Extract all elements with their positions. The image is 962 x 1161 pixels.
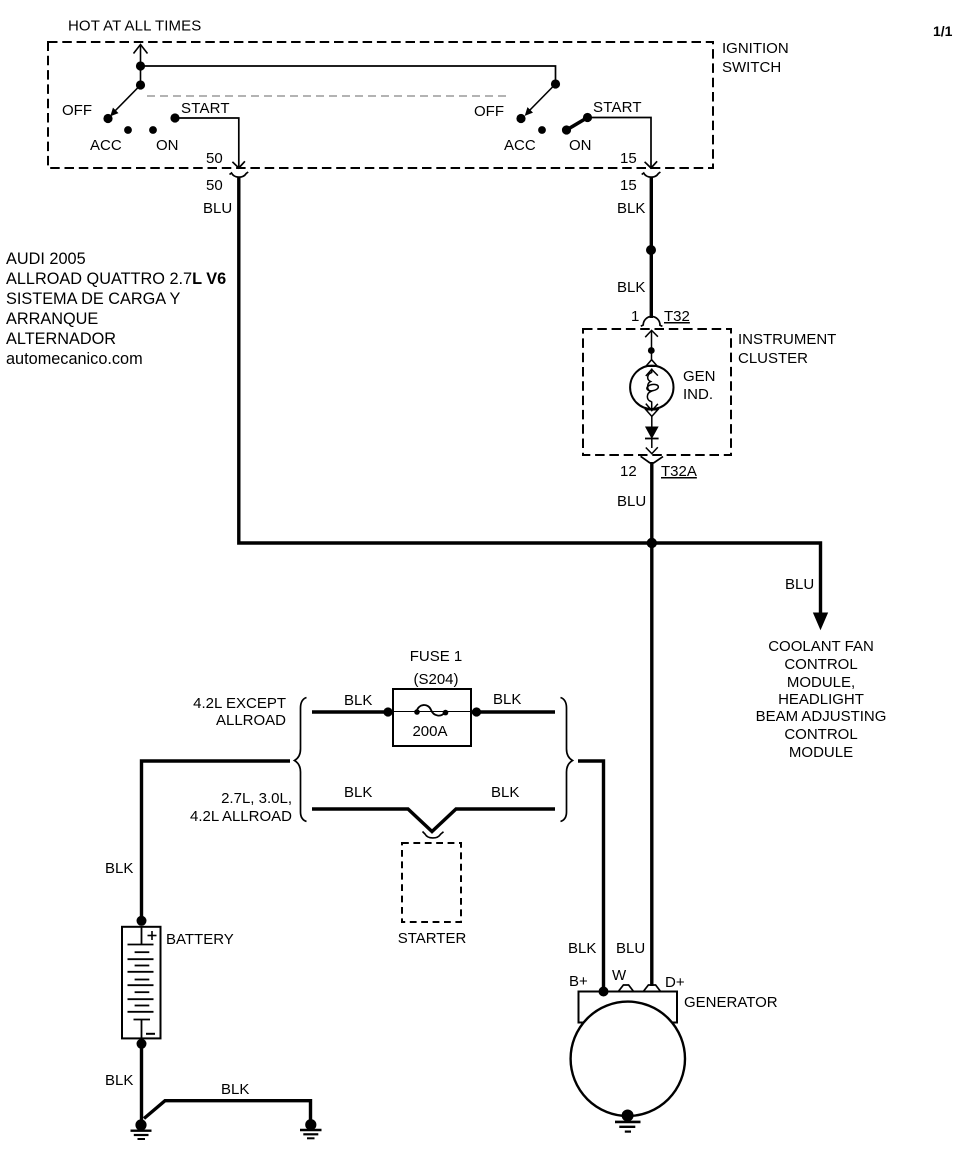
svg-text:STARTER: STARTER xyxy=(398,930,467,947)
svg-text:T32A: T32A xyxy=(661,463,697,480)
battery plus sign xyxy=(148,931,157,940)
fuse element F1 xyxy=(414,705,448,716)
left contact OFF xyxy=(103,114,112,123)
label COOLANT FAN CONTROL MODULE xyxy=(756,638,887,761)
svg-text:BLK: BLK xyxy=(221,1081,249,1098)
svg-text:START: START xyxy=(181,100,230,117)
node: BLU junction xyxy=(647,538,657,548)
connector cup 15 xyxy=(642,172,661,177)
svg-text:ALLROAD: ALLROAD xyxy=(216,712,286,729)
ground G202 (body) xyxy=(300,1119,322,1138)
svg-text:D+: D+ xyxy=(665,974,685,991)
svg-text:HEADLIGHT: HEADLIGHT xyxy=(778,691,864,708)
svg-text:B+: B+ xyxy=(569,973,588,990)
starter box xyxy=(402,843,461,922)
svg-text:ACC: ACC xyxy=(90,137,122,154)
svg-text:2.7L, 3.0L,: 2.7L, 3.0L, xyxy=(221,790,292,807)
svg-text:automecanico.com: automecanico.com xyxy=(6,350,143,368)
battery minus sign xyxy=(146,1033,155,1035)
svg-text:ALLROAD QUATTRO 2.7L V6: ALLROAD QUATTRO 2.7L V6 xyxy=(6,270,226,288)
svg-text:BLK: BLK xyxy=(493,691,521,708)
wire: BLU from cluster down xyxy=(650,462,653,986)
svg-text:CONTROL: CONTROL xyxy=(784,726,857,743)
svg-text:COOLANT FAN: COOLANT FAN xyxy=(768,638,874,655)
node: feed junction B xyxy=(136,61,145,70)
node: battery negative xyxy=(137,1039,147,1049)
svg-text:T32: T32 xyxy=(664,308,690,325)
generator ground xyxy=(615,1110,641,1132)
fuse box xyxy=(393,689,471,746)
label 4.2L EXCEPT ALLROAD xyxy=(193,695,286,729)
wire: battery to ground xyxy=(140,1044,143,1120)
svg-text:1: 1 xyxy=(631,308,639,325)
wire: right START to terminal 15 xyxy=(588,118,658,170)
wire: hot feed arrow into switch xyxy=(134,45,148,86)
svg-text:BLK: BLK xyxy=(344,692,372,709)
svg-text:SISTEMA DE CARGA Y: SISTEMA DE CARGA Y xyxy=(6,290,180,308)
svg-text:BLK: BLK xyxy=(105,1072,133,1089)
svg-text:4.2L EXCEPT: 4.2L EXCEPT xyxy=(193,695,286,712)
svg-text:BLK: BLK xyxy=(491,784,519,801)
terminal D+ cup xyxy=(643,985,660,992)
right switch wiper arm xyxy=(526,84,556,115)
ignition switch box xyxy=(48,42,713,168)
right contact ACC xyxy=(538,126,546,134)
right contact ON xyxy=(562,125,571,134)
left contact START xyxy=(170,113,179,122)
node: fuse left xyxy=(383,707,392,716)
wire: brace to generator B+ xyxy=(578,761,604,990)
svg-text:200A: 200A xyxy=(412,723,447,740)
left brace gathering rows xyxy=(295,698,307,822)
svg-text:HOT AT ALL TIMES: HOT AT ALL TIMES xyxy=(68,18,201,35)
pin arrow into cluster xyxy=(645,330,658,348)
svg-text:12: 12 xyxy=(620,463,637,480)
node: battery positive xyxy=(137,916,147,926)
svg-text:W: W xyxy=(612,967,627,984)
label FUSE 1 (S204) xyxy=(410,648,463,688)
svg-text:ON: ON xyxy=(569,137,592,154)
diode symbol xyxy=(646,427,658,438)
svg-text:ALTERNADOR: ALTERNADOR xyxy=(6,330,116,348)
svg-text:50: 50 xyxy=(206,150,223,167)
wiper bar ON-START (closed) xyxy=(567,118,588,131)
left contact ON xyxy=(149,126,157,134)
svg-text:OFF: OFF xyxy=(474,103,504,120)
svg-text:BEAM ADJUSTING: BEAM ADJUSTING xyxy=(756,708,887,725)
node: B+ terminal xyxy=(599,987,609,997)
wire: row1 left xyxy=(312,710,393,713)
svg-text:INSTRUMENT: INSTRUMENT xyxy=(738,331,836,348)
right contact OFF xyxy=(516,114,525,123)
node: left wiper pivot xyxy=(136,80,145,89)
starter connector cup xyxy=(423,832,444,838)
wire: battery feed xyxy=(142,761,291,919)
svg-text:GEN: GEN xyxy=(683,368,716,385)
wire: row1 right xyxy=(471,710,555,713)
wire: bus to right switch xyxy=(141,66,556,84)
svg-text:BATTERY: BATTERY xyxy=(166,931,234,948)
svg-text:BLK: BLK xyxy=(105,860,133,877)
svg-text:OFF: OFF xyxy=(62,102,92,119)
svg-text:START: START xyxy=(593,99,642,116)
svg-text:AUDI 2005: AUDI 2005 xyxy=(6,250,86,268)
node: fuse right xyxy=(472,707,481,716)
svg-text:FUSE 1: FUSE 1 xyxy=(410,648,463,665)
label 2.7L, 3.0L, 4.2L ALLROAD xyxy=(190,790,292,825)
svg-text:1/1: 1/1 xyxy=(933,23,953,39)
title block text xyxy=(6,250,226,368)
lamp output arrow xyxy=(646,410,658,427)
svg-text:ARRANQUE: ARRANQUE xyxy=(6,310,98,328)
node: splice on BLK wire xyxy=(646,245,656,255)
node: lamp feed dot xyxy=(648,347,655,354)
instrument cluster box xyxy=(583,329,731,455)
connector T32 female cup xyxy=(641,317,663,327)
svg-text:(S204): (S204) xyxy=(413,671,458,688)
fuse internal link xyxy=(393,711,471,713)
svg-text:BLK: BLK xyxy=(568,940,596,957)
wire: ground branch xyxy=(144,1101,311,1120)
svg-text:CONTROL: CONTROL xyxy=(784,656,857,673)
svg-text:BLK: BLK xyxy=(617,279,645,296)
svg-text:BLK: BLK xyxy=(617,200,645,217)
wire to pin 12 xyxy=(646,439,658,454)
left contact ACC xyxy=(124,126,132,134)
svg-text:GENERATOR: GENERATOR xyxy=(684,994,778,1011)
generator body xyxy=(571,1002,685,1116)
indicator lamp GEN IND xyxy=(630,366,673,409)
generator terminal box xyxy=(579,992,678,1023)
svg-text:BLU: BLU xyxy=(203,200,232,217)
left switch wiper arm xyxy=(111,85,141,116)
svg-text:ACC: ACC xyxy=(504,137,536,154)
svg-text:15: 15 xyxy=(620,177,637,194)
svg-text:BLK: BLK xyxy=(344,784,372,801)
wire: 50 BLU from ignition down and across xyxy=(239,178,821,615)
svg-text:MODULE,: MODULE, xyxy=(787,674,855,691)
svg-text:4.2L ALLROAD: 4.2L ALLROAD xyxy=(190,808,292,825)
right contact START xyxy=(583,113,592,122)
wire: BLK from ignition to cluster xyxy=(650,177,653,318)
terminal W cup xyxy=(618,985,633,992)
wire into lamp xyxy=(646,350,658,366)
svg-text:BLU: BLU xyxy=(785,576,814,593)
wire: row2 with dip to starter xyxy=(312,809,555,832)
arrow to coolant fan module xyxy=(814,613,828,629)
svg-text:BLU: BLU xyxy=(617,493,646,510)
svg-text:SWITCH: SWITCH xyxy=(722,59,781,76)
svg-text:CLUSTER: CLUSTER xyxy=(738,350,808,367)
right brace gathering rows xyxy=(561,698,573,822)
ground G201 (battery) xyxy=(131,1119,152,1139)
node: right wiper pivot xyxy=(551,79,560,88)
svg-text:15: 15 xyxy=(620,150,637,167)
svg-text:IGNITION: IGNITION xyxy=(722,40,789,57)
battery G1 xyxy=(122,927,161,1039)
svg-text:IND.: IND. xyxy=(683,386,713,403)
connector T32A female cup xyxy=(641,456,663,463)
svg-text:MODULE: MODULE xyxy=(789,744,853,761)
svg-text:ON: ON xyxy=(156,137,179,154)
connector cup 50 xyxy=(230,172,249,177)
wire: left START to terminal 50 xyxy=(175,118,245,169)
svg-text:BLU: BLU xyxy=(616,940,645,957)
svg-text:50: 50 xyxy=(206,177,223,194)
mechanical linkage (dashed) xyxy=(147,95,511,97)
